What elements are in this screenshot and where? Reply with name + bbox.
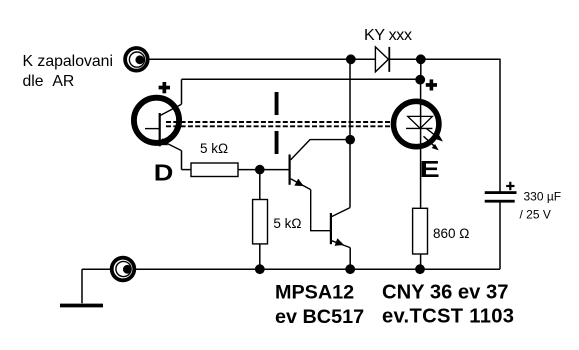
terminal J1 top left [125,48,148,71]
svg-text:E: E [420,156,440,182]
capacitor C1 top plate [485,191,517,194]
transistor Q2 emitter arrowhead [335,238,344,246]
node dot bottom rail at R3 [415,264,425,274]
phototransistor D body circle [134,98,179,143]
svg-text:K zapalovani: K zapalovani [23,53,113,70]
svg-text:MPSA12: MPSA12 [275,282,354,304]
wire collector rail (second rail) [182,78,421,80]
svg-text:5 kΩ: 5 kΩ [273,216,301,231]
svg-text:5 kΩ: 5 kΩ [200,141,228,156]
wire right edge upper (corner down to capacitor) [499,59,501,192]
transistor D base lead [145,128,160,130]
shutter vane lower bar [275,131,279,154]
optocoupler LED E body circle [394,101,439,146]
LED E emission arrow 2 [424,136,439,150]
transistor D emitter lead [160,140,182,151]
wire node down to R2 [259,170,261,200]
wire top rail right segment to right edge corner [389,58,500,60]
plus sign at C1 [506,182,514,190]
wire bottom rail [82,268,500,270]
svg-text:CNY 36 ev 37: CNY 36 ev 37 [382,282,508,304]
transistor Q2 base bar [330,213,332,244]
wire top rail left segment [148,58,376,60]
svg-text:ev BC517: ev BC517 [275,306,364,328]
svg-text:ev.TCST 1103: ev.TCST 1103 [382,306,514,328]
node dot bottom rail at Q2 emitter [345,264,355,274]
wire D collector riser [181,79,183,104]
wire D emitter down [181,151,183,170]
shutter vane upper bar [275,92,279,115]
transistor D emitter arrowhead [159,138,168,145]
resistor R2 5k vertical [253,200,268,244]
plus sign above D [159,82,170,93]
transistor Q1 collector path [291,140,350,160]
node dot top rail right of diode [416,54,426,64]
svg-text:KY xxx: KY xxx [364,27,412,44]
optical beam dashed line upper [166,121,404,123]
wire right edge lower (capacitor down to bottom rail) [499,202,501,269]
diode KY xxx [375,47,389,72]
collector bus vertical x350 [349,59,351,207]
node dot anode of E [415,75,425,85]
node dot bottom rail at R2 [255,264,265,274]
svg-text:330 µF: 330 µF [524,190,562,204]
optical beam dashed line lower [166,125,404,127]
wire short drop to anode node [420,59,422,79]
LED E triangle [408,116,433,128]
wire R1 to node [238,169,289,171]
wire R3 to bottom rail [420,254,422,269]
node dot top rail left of diode [346,54,356,64]
svg-text:dle AR: dle AR [23,73,75,90]
ground [60,304,103,308]
wire Q2 emitter to bottom rail [349,248,351,270]
capacitor C1 bottom plate [485,200,515,203]
LED E cathode bar [406,127,432,129]
resistor R1 5k horizontal [191,163,238,177]
wire Q1 emitter to Q2 base [311,190,331,231]
node dot Q1 collector junction [345,135,355,145]
transistor D base bar [159,113,161,146]
transistor Q2 emitter lead [332,241,350,248]
svg-text:/ 25 V: / 25 V [520,208,551,222]
wire LED branch vertical [420,79,422,208]
plus sign at E anode [426,79,437,90]
node dot base divider [255,165,265,175]
terminal J2 bottom left [112,258,135,281]
transistor D collector lead [160,104,182,116]
wire R2 to bottom rail [259,244,261,269]
wire ground drop [81,269,83,303]
transistor Q1 emitter lead [291,179,311,190]
resistor R3 860 ohm vertical [413,208,428,254]
transistor Q2 collector lead [332,208,350,217]
wire to R1 [182,169,192,171]
LED E emission arrow 1 [427,129,444,142]
transistor Q1 base bar [289,155,291,185]
transistor Q1 emitter arrowhead [294,179,303,187]
svg-text:D: D [154,160,174,186]
svg-text:860 Ω: 860 Ω [433,226,469,241]
